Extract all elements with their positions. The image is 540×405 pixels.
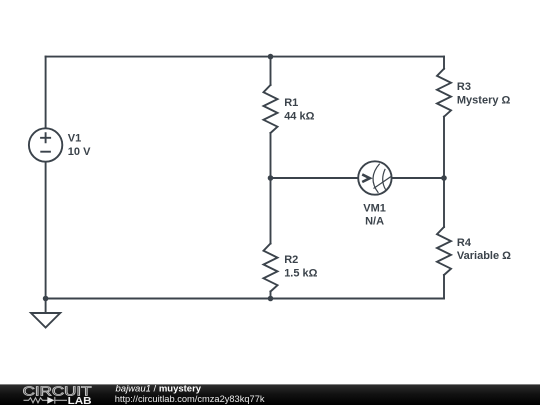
node dot middle xyxy=(268,175,274,181)
resistor R4 xyxy=(437,227,451,275)
wire left bottom (V1 to bottom rail) xyxy=(45,162,47,299)
wire voltmeter right xyxy=(392,177,444,179)
wire right top lead xyxy=(443,57,445,69)
svg-text:10 V: 10 V xyxy=(68,146,91,158)
node dot bottom middle xyxy=(268,296,274,302)
svg-text:VM1: VM1 xyxy=(363,202,386,214)
wire right bottom lead xyxy=(443,275,445,299)
svg-text:Variable Ω: Variable Ω xyxy=(457,250,511,262)
logo resistor-diode line xyxy=(24,397,68,404)
svg-text:bajwau1 / muystery: bajwau1 / muystery xyxy=(116,384,202,395)
wire bottom rail xyxy=(46,298,444,300)
node dot top middle xyxy=(268,54,274,60)
wire top rail xyxy=(46,56,444,58)
svg-text:R1: R1 xyxy=(284,97,298,109)
voltage source V1 xyxy=(29,128,62,161)
svg-text:V1: V1 xyxy=(68,133,81,145)
wire middle between R1 and R2 xyxy=(270,133,272,244)
svg-text:http://circuitlab.com/cmza2y83: http://circuitlab.com/cmza2y83kq77k xyxy=(115,394,265,404)
wire middle bottom lead xyxy=(270,292,272,299)
wire voltmeter left xyxy=(271,177,359,179)
resistor R2 xyxy=(264,244,278,292)
svg-text:44 kΩ: 44 kΩ xyxy=(284,110,314,122)
ground xyxy=(31,313,60,328)
footer bar xyxy=(0,384,540,405)
svg-text:N/A: N/A xyxy=(365,215,384,227)
logo diode triangle xyxy=(47,397,54,404)
resistor R1 xyxy=(264,85,278,133)
wire ground stem xyxy=(45,299,47,314)
wire right between R3 and R4 xyxy=(443,117,445,227)
node dot bottom left xyxy=(43,296,49,302)
wire middle top lead xyxy=(270,57,272,85)
svg-text:Mystery Ω: Mystery Ω xyxy=(457,95,511,107)
node dot right middle xyxy=(441,175,447,181)
svg-text:R2: R2 xyxy=(284,254,298,266)
voltmeter VM1 xyxy=(358,161,391,194)
wire left top (V1 to top rail) xyxy=(45,57,47,129)
resistor R3 xyxy=(437,69,451,117)
svg-text:LAB: LAB xyxy=(68,396,93,405)
svg-text:1.5 kΩ: 1.5 kΩ xyxy=(284,267,317,279)
svg-text:R4: R4 xyxy=(457,237,472,249)
svg-text:R3: R3 xyxy=(457,81,471,93)
